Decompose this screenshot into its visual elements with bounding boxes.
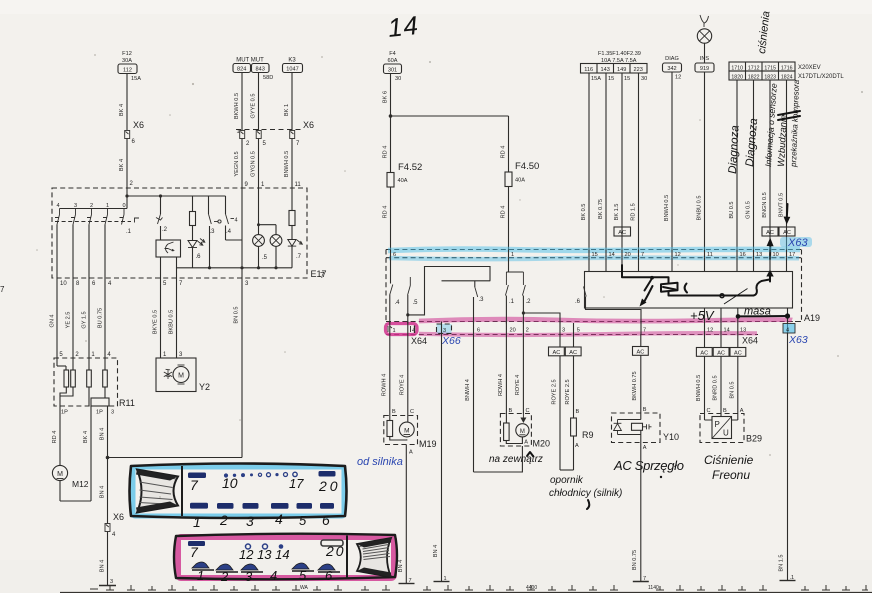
svg-text:+5V: +5V — [690, 308, 715, 323]
svg-text:2: 2 — [220, 569, 229, 584]
svg-text:X66: X66 — [441, 335, 461, 347]
wire RD4 R11 to M12 — [52, 406, 60, 466]
svg-text:843: 843 — [256, 67, 265, 73]
svg-text:MUT MUT: MUT MUT — [236, 58, 264, 64]
pressure sensor B29 — [700, 414, 762, 444]
wire ROYE4 ECU pin2 to JM20 C — [515, 335, 530, 415]
wire GN4 E17 to R11 — [50, 314, 56, 327]
svg-text:BNWH 0.5: BNWH 0.5 — [284, 151, 290, 177]
wire RDWH4 ECU pin20 to JM20 B — [498, 335, 513, 424]
fuse holder MUT 824 / MUT 843 — [233, 58, 273, 82]
wire BK4 M12 to R11 — [83, 406, 91, 501]
connector INS 919 — [695, 56, 714, 72]
svg-text:30: 30 — [641, 76, 647, 82]
svg-text:116: 116 — [584, 67, 593, 73]
svg-text:F4.50: F4.50 — [515, 161, 539, 172]
svg-text:143: 143 — [601, 67, 610, 73]
svg-text:13: 13 — [756, 252, 762, 258]
svg-text:1047: 1047 — [286, 67, 298, 73]
svg-text:17: 17 — [789, 252, 795, 258]
ECU pin stubs into inner box — [589, 258, 787, 272]
pink connector pins — [188, 540, 346, 584]
svg-text:M: M — [520, 429, 525, 435]
svg-text:BNWH 0.5: BNWH 0.5 — [664, 195, 670, 221]
svg-text:20: 20 — [510, 328, 516, 334]
wire BK4 F12 to X6 — [119, 74, 127, 131]
wire BN0.75 Y10 to ground — [632, 443, 649, 583]
handwritten Cisnienie Freonu — [704, 453, 754, 482]
svg-text:.4: .4 — [226, 229, 232, 235]
scan speckles — [36, 54, 863, 498]
ECU bottom pin strip dashed — [386, 322, 802, 335]
svg-text:BN 4: BN 4 — [100, 486, 106, 498]
svg-text:BN 4: BN 4 — [433, 545, 439, 557]
E17 transistor box — [156, 240, 181, 257]
ECU right dashed edge and A19 label — [795, 250, 820, 324]
E17 switch .3 — [209, 196, 222, 268]
svg-text:3: 3 — [111, 410, 114, 416]
fuse row F1.35 F1.40 F2.39 — [581, 51, 648, 82]
blower module JM20 — [500, 414, 550, 449]
ECU bottom pin numbers — [477, 328, 746, 334]
ECU left dashed edge — [385, 250, 387, 325]
svg-text:6: 6 — [477, 328, 480, 334]
wire GYGN0.5 X6 to E17 pin1 — [251, 139, 266, 189]
svg-text:A: A — [643, 445, 647, 451]
handwritten na zewnatrz — [489, 452, 543, 465]
E17 rotary blower switch .1 — [55, 196, 139, 278]
svg-text:.6: .6 — [196, 254, 202, 260]
svg-text:3: 3 — [562, 328, 565, 334]
svg-text:5: 5 — [299, 568, 307, 583]
svg-text:1823: 1823 — [764, 75, 776, 81]
svg-text:BNGN 0.5: BNGN 0.5 — [762, 192, 768, 218]
svg-text:R9: R9 — [582, 430, 594, 440]
E17 pin9 internal wire and pin3 drop — [240, 188, 243, 269]
svg-text:1: 1 — [237, 129, 240, 135]
svg-text:15: 15 — [592, 252, 598, 258]
fuse F4 — [384, 51, 402, 82]
svg-text:ROYE 4: ROYE 4 — [400, 375, 406, 396]
handwritten opornik chlodnicy — [549, 475, 622, 509]
svg-text:F4.52: F4.52 — [398, 162, 422, 173]
E17 pin 3 wire BN0.5 — [106, 268, 249, 460]
svg-text:M: M — [404, 428, 409, 435]
svg-text:1P: 1P — [96, 410, 103, 416]
svg-text:X63: X63 — [788, 334, 808, 346]
svg-text:RD 4: RD 4 — [501, 206, 507, 219]
svg-text:WA: WA — [300, 585, 309, 591]
svg-text:.6: .6 — [575, 299, 581, 305]
svg-text:X6: X6 — [303, 120, 314, 130]
hand drawn connector pink lower — [174, 534, 397, 580]
svg-text:YE 2.5: YE 2.5 — [66, 312, 72, 329]
ECU internal switch .3 — [474, 281, 485, 324]
handwritten note Informacja o sensorze vertical — [763, 83, 779, 167]
svg-text:3: 3 — [110, 579, 113, 585]
wire ROYE2.5 ECU pin5 to R9 with AC tag — [565, 335, 581, 419]
svg-text:20: 20 — [625, 252, 631, 258]
svg-text:1: 1 — [197, 568, 204, 583]
svg-text:3: 3 — [245, 569, 253, 584]
E17 transistor legs to pins 5 and 7 — [161, 257, 184, 287]
svg-text:F1.35F1.40F2.39: F1.35F1.40F2.39 — [598, 51, 641, 57]
hand arrow up on BNGN wire below AC — [767, 238, 774, 259]
svg-text:BKBU 0.5: BKBU 0.5 — [169, 310, 175, 335]
svg-text:3: 3 — [246, 513, 254, 529]
handwritten AC Sprzeglo — [613, 458, 684, 478]
svg-text:149: 149 — [617, 67, 626, 73]
svg-text:12 13 14: 12 13 14 — [239, 547, 290, 562]
svg-text:opornik: opornik — [550, 475, 584, 486]
handwritten note Wzbudzanie vertical — [776, 114, 790, 167]
svg-text:7: 7 — [641, 252, 644, 258]
svg-text:15A: 15A — [591, 76, 601, 82]
svg-text:M20: M20 — [533, 439, 551, 449]
ECU internal switch .6 — [575, 287, 641, 324]
svg-text:4: 4 — [56, 203, 59, 209]
hand sketch output jog and up arrow — [720, 270, 774, 305]
wire YEGN0.5 X6 to E17 pin9 — [234, 139, 249, 189]
wire BU0.75 E17 to R11 — [98, 308, 104, 328]
wire BNVT0.5 to ECU pin17 with AC tag — [779, 80, 796, 250]
blue highlighter band over top strip — [388, 249, 800, 259]
svg-text:RD 4: RD 4 — [52, 431, 58, 444]
svg-text:A: A — [524, 440, 528, 446]
svg-text:BN 0.75: BN 0.75 — [632, 550, 638, 570]
svg-text:BN 4: BN 4 — [100, 428, 106, 440]
wire to X63 from inner box — [787, 308, 789, 324]
svg-text:.7: .7 — [296, 254, 302, 260]
hand sketch relay coil inside ECU — [622, 265, 754, 296]
svg-text:11: 11 — [295, 182, 302, 188]
svg-text:X64: X64 — [742, 336, 758, 346]
svg-text:7: 7 — [190, 544, 199, 560]
svg-text:40A: 40A — [515, 178, 525, 184]
svg-text:7: 7 — [190, 477, 199, 493]
svg-text:Freonu: Freonu — [712, 468, 750, 482]
wire stubs crossing top pin strip — [391, 250, 787, 258]
svg-text:6: 6 — [322, 512, 330, 528]
svg-text:GYYE 0.5: GYYE 0.5 — [251, 94, 257, 119]
wire BNWH4 ECU pin6 to JM20 A loop — [465, 335, 528, 473]
svg-text:M19: M19 — [419, 439, 437, 449]
svg-text:RD 4: RD 4 — [383, 146, 389, 159]
E17 LED .6 — [188, 226, 205, 268]
svg-text:BNBU 0.5: BNBU 0.5 — [697, 196, 703, 221]
svg-text:Y10: Y10 — [663, 432, 679, 442]
wire BNWH0.5 ECU pin12 to B29 C with AC tag — [696, 335, 712, 421]
svg-text:4: 4 — [786, 328, 789, 334]
connector X6 pin 4 on BN4 — [100, 458, 125, 539]
wire stubs crossing bottom pin strip — [390, 322, 788, 335]
E17 feed wire from pin2 — [125, 194, 225, 197]
wire BN0.5 ECU pin13 to B29 A with AC tag — [729, 335, 746, 421]
svg-text:2: 2 — [90, 203, 93, 209]
svg-text:1140: 1140 — [648, 585, 659, 591]
svg-text:13: 13 — [740, 328, 746, 334]
svg-text:7: 7 — [320, 271, 325, 280]
svg-text:5: 5 — [577, 328, 580, 334]
ECU A19 top pin strip dashed — [386, 250, 802, 258]
motor M12 blower — [52, 465, 91, 501]
handwritten masa wire — [736, 306, 790, 319]
svg-text:BN 1.5: BN 1.5 — [779, 554, 785, 571]
svg-text:AC: AC — [766, 230, 774, 236]
svg-text:BN 0.5: BN 0.5 — [234, 306, 240, 323]
svg-text:12: 12 — [675, 252, 681, 258]
svg-text:58D: 58D — [263, 75, 273, 81]
svg-text:40A: 40A — [398, 178, 408, 184]
svg-text:X64: X64 — [411, 336, 427, 346]
svg-text:30A: 30A — [122, 58, 132, 64]
wire BNRD0.5 ECU pin14 to B29 B with AC tag — [713, 335, 730, 417]
svg-text:1820: 1820 — [731, 75, 743, 81]
E17 lamps .5 — [253, 188, 282, 269]
wire RD4 to F4.50 — [501, 116, 509, 172]
wire BNWH0.5 DIAG to ECU pin12 — [664, 72, 672, 250]
svg-text:B29: B29 — [746, 434, 762, 444]
svg-text:.1: .1 — [126, 229, 132, 235]
ECU internal switch .1 — [505, 258, 523, 324]
svg-text:Y2: Y2 — [199, 382, 210, 392]
ground left BN4 pin3 — [99, 579, 116, 586]
faint bottom row numbers — [300, 585, 659, 591]
handwritten note przekaznika kompresora vertical — [778, 79, 801, 168]
svg-text:1712: 1712 — [748, 66, 760, 72]
svg-text:2: 2 — [219, 512, 228, 528]
svg-text:AC: AC — [734, 351, 742, 357]
svg-text:11: 11 — [707, 252, 713, 258]
wire BN1.5 X63 to ground — [779, 333, 796, 581]
fuse F4.52 — [387, 162, 422, 187]
svg-text:10: 10 — [773, 252, 779, 258]
svg-text:.2: .2 — [162, 227, 168, 233]
svg-text:60A: 60A — [388, 58, 398, 64]
resistor pack R11 — [54, 352, 135, 416]
svg-text:ROYE 2.5: ROYE 2.5 — [552, 379, 558, 404]
fuse holder K3 1047 — [283, 58, 303, 73]
wire BU0.5 to ECU pin16 — [729, 80, 737, 250]
wire BN4 X6 to ground — [100, 532, 108, 586]
svg-text:F12: F12 — [122, 51, 132, 57]
connector X6 row pins 2 5 7 — [236, 120, 314, 147]
stray scan glyph 7 left edge — [0, 285, 5, 294]
svg-text:B: B — [392, 409, 396, 415]
svg-text:1716: 1716 — [781, 66, 793, 72]
svg-text:.5: .5 — [262, 255, 268, 261]
compressor clutch Y10 — [612, 413, 680, 451]
svg-text:7: 7 — [0, 285, 5, 294]
handwritten X63 label top right — [780, 237, 812, 249]
svg-text:14: 14 — [386, 10, 419, 43]
fuse F12 — [118, 51, 141, 82]
svg-text:BN 4: BN 4 — [398, 560, 404, 572]
svg-text:16: 16 — [740, 252, 746, 258]
svg-text:P: P — [715, 420, 720, 429]
E17 resistor above LED .6 — [190, 196, 196, 226]
svg-text:12: 12 — [675, 75, 681, 81]
svg-text:RD 4: RD 4 — [383, 206, 389, 219]
svg-text:10: 10 — [222, 475, 238, 491]
svg-text:1: 1 — [193, 514, 201, 530]
svg-text:BU 0.75: BU 0.75 — [98, 308, 104, 328]
svg-text:14: 14 — [609, 252, 615, 258]
svg-text:X17DTL/X20DTL: X17DTL/X20DTL — [798, 74, 844, 80]
ECU outputs to bottom pins 12 14 13 — [705, 308, 738, 322]
wire YE2.5 E17 to R11 — [66, 312, 72, 329]
svg-text:1P: 1P — [61, 410, 68, 416]
wire RD4 F4.52 to ECU pin6 — [383, 187, 391, 250]
E17 switch .4 — [226, 196, 243, 240]
bottom sheet border row of ground stubs — [60, 585, 872, 593]
svg-text:X6: X6 — [133, 120, 144, 130]
wire BN4 JM19 to ground — [398, 445, 415, 585]
svg-text:C: C — [410, 409, 414, 415]
svg-text:.4: .4 — [395, 300, 401, 306]
wire RD4 F4.50 to ECU pin1 — [501, 187, 509, 250]
svg-text:A19: A19 — [804, 313, 820, 323]
svg-text:342: 342 — [667, 66, 676, 72]
wire BK1.5 fuse149 to ECU pin20 with AC tag — [614, 73, 631, 250]
svg-text:17: 17 — [289, 476, 304, 491]
svg-text:ROWH 4: ROWH 4 — [382, 374, 388, 396]
svg-text:ROYE 4: ROYE 4 — [515, 375, 521, 396]
svg-text:B: B — [576, 409, 580, 415]
svg-text:BNWH 0.5: BNWH 0.5 — [696, 375, 702, 401]
indicator lamp above INS — [697, 15, 711, 63]
wire BKYE0.5 E17 pin5 to Y2 — [153, 284, 168, 358]
handwritten note Diagnoza 2 vertical — [744, 118, 760, 167]
svg-text:1710: 1710 — [731, 66, 743, 72]
ECU inner relay box — [585, 272, 793, 309]
svg-text:10: 10 — [60, 281, 67, 287]
svg-text:BK 4: BK 4 — [119, 104, 125, 116]
svg-text:.1: .1 — [509, 299, 515, 305]
svg-text:0: 0 — [122, 203, 125, 209]
connector block 1710 1712 1715 1716 / 1820 1822 1823 1824 — [729, 62, 844, 81]
svg-text:BKWH 0.75: BKWH 0.75 — [632, 371, 638, 400]
E17 switch .2 — [156, 196, 168, 240]
svg-text:4: 4 — [270, 568, 277, 583]
svg-text:1715: 1715 — [764, 66, 776, 72]
svg-text:BKYE 0.5: BKYE 0.5 — [153, 310, 159, 334]
svg-text:A: A — [409, 450, 413, 456]
svg-text:.5: .5 — [413, 300, 419, 306]
svg-text:1: 1 — [393, 328, 396, 334]
resistor R9 radiator fan — [571, 418, 594, 470]
svg-text:BK 6: BK 6 — [383, 91, 389, 103]
svg-text:AC: AC — [553, 350, 561, 356]
svg-text:M12: M12 — [72, 479, 89, 489]
svg-text:BK 4: BK 4 — [83, 431, 89, 443]
wire BKWH0.75 ECU pin7 to Y10 with AC tag — [632, 335, 648, 414]
ECU internal switch .4 — [390, 258, 400, 324]
svg-text:DIAG: DIAG — [665, 56, 679, 62]
svg-text:A: A — [575, 443, 579, 449]
svg-text:Ciśnienie: Ciśnienie — [704, 453, 754, 467]
svg-text:AC: AC — [637, 350, 645, 356]
svg-text:12: 12 — [707, 328, 713, 334]
svg-text:.3: .3 — [479, 297, 485, 303]
svg-text:14: 14 — [724, 328, 730, 334]
svg-text:INS: INS — [700, 56, 710, 62]
svg-text:BK 0.5: BK 0.5 — [581, 204, 587, 221]
svg-text:4: 4 — [275, 511, 283, 527]
wire BKBU0.5 E17 pin7 to Y2 — [169, 284, 184, 358]
svg-text:BK 1: BK 1 — [284, 104, 290, 116]
svg-text:BN 4: BN 4 — [100, 560, 106, 572]
svg-text:M: M — [178, 373, 184, 380]
handwritten od silnika — [357, 456, 403, 468]
wire ROYE2.5 ECU pin3 with AC tag — [549, 335, 574, 471]
svg-text:B: B — [643, 407, 647, 413]
handwritten note Diagnoza vertical — [727, 125, 742, 174]
svg-text:GY 1.5: GY 1.5 — [82, 311, 88, 328]
handwritten note cisnienia vertical — [756, 10, 772, 54]
ECU internal switch .5 — [406, 267, 490, 324]
svg-text:6: 6 — [325, 568, 333, 583]
svg-text:GYGN 0.5: GYGN 0.5 — [251, 151, 257, 177]
pink highlighter band over bottom strip — [419, 319, 792, 335]
wire GN0.5 to ECU pin13 — [746, 80, 754, 250]
handwritten +5V — [690, 308, 715, 323]
svg-text:od silnika: od silnika — [357, 456, 403, 468]
svg-text:M: M — [57, 471, 63, 478]
connector X64 right label — [742, 336, 758, 346]
wire RD4 to F4.52 — [383, 116, 391, 173]
svg-text:K3: K3 — [288, 58, 296, 64]
svg-text:RDWH 4: RDWH 4 — [498, 374, 504, 396]
wire BNWH0.5 X6 to E17 pin11 — [284, 139, 301, 189]
svg-text:3: 3 — [443, 328, 446, 334]
svg-text:chłodnicy (silnik): chłodnicy (silnik) — [549, 488, 622, 499]
svg-text:RD 4: RD 4 — [501, 146, 507, 159]
blue connector top pins — [188, 471, 341, 494]
svg-text:BKWH 0.5: BKWH 0.5 — [234, 93, 240, 119]
svg-text:.2: .2 — [526, 299, 532, 305]
svg-text:112: 112 — [123, 68, 132, 74]
wire BK0.5 fuse116 to ECU pin15 — [581, 73, 589, 250]
E17 resistor and LED .7 — [288, 188, 303, 268]
svg-text:BNWH 4: BNWH 4 — [465, 379, 471, 401]
svg-text:30: 30 — [395, 76, 401, 82]
svg-text:masa: masa — [744, 306, 771, 318]
hand drawn connector blue upper — [130, 464, 347, 519]
svg-text:2: 2 — [526, 328, 529, 334]
svg-text:BU 0.5: BU 0.5 — [729, 201, 735, 218]
wire BK4 X6 to E17 pin2 — [119, 139, 134, 197]
blue connector bottom pins — [190, 503, 334, 530]
svg-text:4400: 4400 — [526, 585, 537, 591]
hand sketch relay contact arrow — [640, 280, 653, 307]
svg-text:BNRD 0.5: BNRD 0.5 — [713, 375, 719, 400]
svg-text:BN 0.5: BN 0.5 — [729, 381, 735, 398]
svg-text:R11: R11 — [119, 398, 135, 408]
svg-text:AC: AC — [700, 351, 708, 357]
svg-text:6: 6 — [393, 252, 396, 258]
svg-text:1: 1 — [511, 252, 514, 258]
svg-text:X6: X6 — [113, 512, 124, 522]
stray scan glyph 7 mid left — [320, 271, 325, 280]
svg-text:20: 20 — [325, 543, 346, 559]
svg-text:U: U — [723, 429, 729, 438]
svg-text:15A: 15A — [131, 76, 141, 82]
hand arrow down on BNVT wire — [784, 204, 791, 225]
svg-text:AC: AC — [618, 230, 626, 236]
svg-text:RD 1.5: RD 1.5 — [631, 203, 637, 220]
svg-text:AC: AC — [783, 230, 791, 236]
